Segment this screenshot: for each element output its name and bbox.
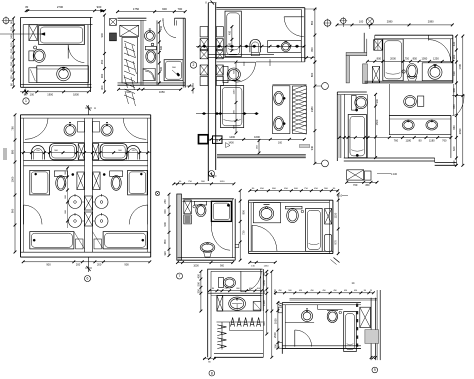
svg-text:300: 300 [228, 42, 231, 47]
left annex wall unit E [346, 33, 367, 84]
svg-text:150: 150 [9, 55, 13, 60]
door arc left unit F [25, 118, 48, 139]
dimension bottom unit E [345, 181, 378, 187]
svg-text:7: 7 [179, 274, 181, 278]
section symbol bottom unit F [85, 257, 92, 272]
svg-text:1500: 1500 [375, 119, 379, 125]
dimension line bottom unit B [117, 88, 182, 94]
hatched duct unit J [360, 307, 371, 327]
door arc unit E [429, 35, 451, 62]
svg-text:600: 600 [160, 66, 163, 71]
svg-text:1000: 1000 [193, 265, 199, 268]
wall bottom unit H [249, 251, 333, 253]
svg-text:200: 200 [273, 344, 277, 349]
svg-text:2090: 2090 [458, 128, 462, 134]
service box 2 unit D [213, 136, 223, 144]
svg-text:660: 660 [452, 125, 456, 130]
left dimension line unit F [10, 113, 16, 253]
svg-text:160: 160 [278, 142, 283, 145]
vertical dimension inside unit D [233, 61, 237, 135]
bathtub lower unit D [221, 86, 244, 128]
partition stub unit D [244, 59, 270, 66]
svg-text:6: 6 [87, 277, 89, 281]
svg-text:320: 320 [163, 251, 167, 256]
shelf rect right unit F [93, 122, 100, 133]
svg-text:730: 730 [242, 230, 246, 235]
door arc unit B [163, 18, 176, 37]
hatch boxes left party wall unit D [200, 65, 223, 86]
wall top unit H [249, 200, 333, 202]
dimension bottom-left unit I [203, 357, 216, 363]
svg-text:2900: 2900 [273, 332, 277, 338]
svg-text:800: 800 [242, 210, 246, 215]
vanity counter unit A [37, 66, 89, 83]
svg-text:1400: 1400 [229, 135, 235, 139]
svg-text:2080: 2080 [387, 19, 393, 23]
leader flag unit D [226, 143, 231, 148]
small wall stub right of unit D [299, 145, 309, 148]
basin oval unit I [229, 297, 246, 310]
hatched cabinet bottom unit E [347, 170, 371, 180]
far right dimension unit I [270, 270, 277, 359]
door arc unit D [236, 62, 256, 82]
closet hangers top row unit I [231, 317, 261, 326]
wall left unit F [21, 115, 24, 257]
svg-text:1650: 1650 [159, 90, 165, 94]
pedestal basin unit E [402, 64, 418, 82]
svg-text:450: 450 [196, 273, 200, 278]
partition mid unit E [365, 81, 453, 83]
sheet label circle 1 [23, 98, 29, 104]
water inlet dot unit B [151, 43, 154, 46]
hatched duct unit A [29, 25, 38, 41]
datum circle E2 [366, 18, 373, 29]
svg-text:1300: 1300 [262, 300, 266, 306]
wall right unit I [261, 269, 264, 357]
cabinet below duct unit G [184, 215, 192, 224]
towel hatch strip unit D [273, 85, 307, 134]
washer circle right upper unit F [93, 194, 109, 209]
left dimension line unit I [196, 270, 202, 313]
svg-text:900: 900 [124, 263, 129, 267]
svg-text:700: 700 [177, 7, 182, 11]
svg-text:600: 600 [452, 104, 456, 109]
corner note bottom-left unit E [337, 189, 348, 198]
arch basin unit C [250, 39, 261, 55]
hatched duct unit H [325, 209, 332, 225]
svg-text:1100: 1100 [233, 89, 235, 94]
svg-text:B: B [216, 138, 218, 142]
washer circle right lower unit F [93, 213, 109, 228]
right dimension line unit H [334, 193, 340, 255]
corridor wall line above unit J [290, 298, 378, 300]
hatch boxes right of party wall [216, 27, 223, 59]
basin circle unit C [281, 41, 290, 51]
dimension line top unit H [248, 189, 339, 192]
svg-text:1180: 1180 [429, 138, 435, 142]
svg-text:800: 800 [310, 72, 314, 77]
wall top unit J [282, 303, 361, 305]
sheet label circle 7 [177, 273, 183, 279]
counter dim labels unit F [36, 150, 136, 152]
svg-text:1600: 1600 [254, 135, 260, 139]
toilet WC left unit F [54, 171, 67, 191]
sheet label circle 4 [209, 171, 215, 177]
wall left unit G thick [177, 194, 182, 260]
bottom wall end ticks unit J [370, 356, 377, 359]
dimension line top unit E [336, 19, 454, 26]
hatch boxes centre lower unit F [85, 196, 93, 226]
bidet arch right unit F [127, 146, 140, 160]
toilet WC right unit F [110, 171, 123, 191]
inlet dot lower-left unit E [355, 109, 357, 111]
vanity counter unit D [273, 86, 290, 134]
dimension label 270 above unit A [25, 5, 101, 9]
basin circle unit J [301, 309, 312, 322]
pedestal basin unit G [200, 243, 215, 258]
far right dimension unit E [458, 35, 464, 167]
bathtub unit C [225, 11, 241, 57]
door arc unit C [284, 17, 304, 37]
svg-text:600: 600 [160, 45, 163, 50]
svg-text:900: 900 [262, 321, 266, 326]
sheet label circle 6 [85, 276, 91, 282]
hatch panel counter right unit F [93, 144, 99, 160]
wall extension ticks right of unit D [305, 56, 315, 59]
svg-text:1900: 1900 [47, 92, 53, 96]
bathtub unit J [344, 304, 359, 352]
svg-text:1380: 1380 [310, 106, 314, 112]
hatch box left of party wall unit F [77, 172, 84, 190]
dimension line top of unit A [25, 9, 106, 12]
vanity counter front right unit F [93, 141, 148, 143]
left dimension line unit A [9, 17, 15, 89]
shower square unit B [164, 60, 183, 81]
wall right lower unit E [451, 84, 454, 158]
inner vertical dimension unit C [228, 25, 233, 52]
svg-text:200: 200 [76, 263, 81, 267]
closet hanger rail unit I [217, 321, 263, 323]
svg-text:430: 430 [452, 41, 456, 46]
datum target symbol E1 [339, 17, 347, 27]
toilet WC unit I [219, 278, 236, 288]
wall right unit J [371, 290, 380, 360]
toilet WC centre unit E [404, 96, 424, 108]
wall top unit C [216, 8, 304, 10]
toilet WC upper unit E [352, 96, 368, 111]
wall right unit C [301, 8, 305, 62]
svg-text:850: 850 [163, 239, 167, 244]
door arc right unit F [123, 118, 146, 139]
washer circle left lower unit F [69, 213, 85, 228]
svg-text:2: 2 [193, 63, 195, 67]
partition line unit J [285, 322, 314, 324]
svg-text:9: 9 [374, 368, 376, 372]
svg-text:380: 380 [452, 87, 456, 92]
svg-text:300: 300 [100, 85, 104, 90]
sheet label circle 2 [190, 62, 196, 68]
svg-text:1180: 1180 [406, 138, 412, 142]
svg-text:900: 900 [46, 263, 51, 267]
left dimension line unit G [163, 193, 171, 257]
wall right unit E [451, 35, 453, 83]
svg-text:160: 160 [9, 68, 13, 73]
partition wall unit B [141, 20, 143, 85]
bathtub lower unit E [348, 115, 366, 158]
dimension right of unit C [305, 8, 317, 64]
door arc unit I [241, 272, 261, 292]
svg-text:1450: 1450 [264, 265, 270, 267]
corner shower tray unit B [143, 69, 155, 81]
svg-text:150: 150 [9, 75, 13, 80]
svg-text:450: 450 [365, 183, 370, 187]
dimension line bottom unit A [22, 90, 90, 96]
wall left unit J [282, 303, 285, 354]
wall break arrow unit J [278, 302, 282, 306]
svg-text:1150: 1150 [334, 212, 338, 218]
svg-text:150: 150 [9, 48, 13, 53]
shelf rect left unit F [78, 122, 85, 133]
shower square unit G [211, 201, 231, 221]
basin oval lower unit D [274, 117, 286, 131]
svg-text:760: 760 [10, 126, 14, 131]
partition upper lower-room unit E [337, 92, 367, 94]
dimension bottom unit G [176, 261, 234, 267]
datum target symbol C [323, 19, 332, 28]
bathtub unit E [383, 39, 403, 81]
wall band mid unit F [24, 161, 148, 166]
svg-text:200: 200 [262, 289, 266, 294]
svg-text:1050: 1050 [273, 318, 277, 324]
shower square right unit F [128, 170, 148, 195]
datum target symbol A1 [2, 16, 13, 24]
wall right unit F [148, 115, 151, 257]
right dimension line unit G [239, 189, 246, 262]
bathtub right unit F [103, 232, 147, 249]
partition WC nook unit D [216, 79, 240, 81]
svg-text:750: 750 [405, 56, 410, 60]
svg-text:250: 250 [163, 199, 167, 204]
basin circle unit B [145, 29, 156, 41]
washer box unit A [29, 68, 37, 83]
hatch panel counter left unit F [78, 144, 84, 160]
svg-text:200: 200 [97, 263, 102, 267]
inner dim vertical lower unit E [374, 93, 379, 159]
svg-text:700: 700 [353, 183, 358, 187]
svg-text:160: 160 [9, 42, 13, 47]
basin rounded right unit F [100, 144, 127, 160]
svg-text:760: 760 [394, 138, 399, 142]
svg-text:350: 350 [196, 289, 200, 294]
hatch box lower unit E upper room [372, 67, 379, 83]
svg-text:1: 1 [25, 99, 27, 103]
toilet WC unit H [285, 206, 303, 222]
hatch boxes left of party wall [200, 27, 208, 59]
svg-text:390: 390 [100, 73, 104, 78]
basin circle left unit F [64, 123, 76, 137]
door arc unit J [295, 330, 312, 347]
closet hanger left rail unit I [217, 322, 226, 350]
wall bottom unit A [21, 85, 92, 88]
basin circle unit A [57, 67, 71, 81]
svg-text:900: 900 [220, 265, 225, 268]
black service box left unit D [199, 135, 212, 144]
toilet WC unit J [327, 311, 342, 323]
leader dimension with arrows unit C [196, 45, 305, 48]
wall right unit G [233, 199, 236, 260]
wall top unit I [208, 269, 263, 271]
svg-text:180: 180 [9, 61, 13, 66]
vanity front line unit J [318, 305, 343, 310]
shower square left unit F [30, 170, 50, 195]
svg-text:150: 150 [163, 209, 167, 214]
wall top unit B [118, 18, 147, 20]
grey pilaster unit J [365, 330, 379, 344]
wall bottom unit I [214, 354, 263, 358]
svg-text:1050: 1050 [262, 279, 266, 285]
door arc lower-right unit F [129, 205, 148, 224]
wall pilaster black left unit B [110, 19, 117, 26]
svg-text:1750: 1750 [133, 7, 140, 11]
closet walls lower-left unit E [344, 94, 367, 158]
svg-text:450: 450 [100, 59, 104, 64]
svg-text:A: A [94, 106, 96, 110]
basin circle right unit F [101, 123, 113, 137]
partition mid unit I [208, 293, 263, 295]
wall top unit F [21, 115, 151, 118]
dimension through counters unit F [21, 151, 151, 154]
shower head dot unit B [172, 67, 180, 76]
svg-text:850: 850 [413, 56, 418, 60]
inner dimension line unit B [158, 21, 163, 85]
wall left unit H [249, 200, 252, 253]
mid horizontal dimension unit D [196, 112, 259, 115]
leader arrow to tub unit A [0, 33, 45, 36]
svg-text:620: 620 [452, 146, 456, 151]
washer circle left upper unit F [69, 194, 85, 209]
wall bottom unit B [118, 83, 186, 85]
svg-text:970: 970 [334, 240, 338, 245]
datum circle lower right of unit D [315, 160, 329, 167]
cabinet lower right unit H [325, 235, 332, 252]
inner dim line lower-left unit E [338, 136, 390, 139]
wall between C and D [209, 54, 305, 62]
svg-text:220: 220 [452, 160, 456, 165]
svg-text:900: 900 [162, 7, 167, 11]
section slash near unit J wall [331, 258, 340, 265]
label H above unit J [352, 281, 355, 285]
bathtub left unit F [30, 232, 74, 249]
wall bottom unit G [178, 258, 236, 261]
wall bottom unit E [344, 158, 457, 165]
closet interior lines unit I [230, 322, 264, 331]
dimension line mid unit I [208, 288, 263, 292]
dimension line top of unit B [116, 10, 186, 13]
hatch panel unit I [217, 295, 223, 311]
toilet WC unit G [193, 201, 207, 216]
inner dimension left room unit F [65, 167, 69, 228]
basin oval upper unit D [274, 91, 286, 105]
door arc lower-left unit F [24, 205, 43, 224]
svg-text:800: 800 [310, 47, 314, 52]
svg-text:4: 4 [211, 172, 213, 176]
leader note unit E [377, 173, 398, 176]
svg-text:1400: 1400 [228, 142, 234, 145]
wall right unit H [329, 200, 333, 253]
svg-text:2000: 2000 [390, 56, 396, 60]
closet with hangers unit B [122, 38, 138, 107]
vanity counter lower unit E [389, 116, 451, 135]
wall top unit G [183, 199, 234, 202]
svg-text:150: 150 [9, 26, 13, 31]
basin oval right lower unit E [426, 120, 438, 130]
vertical dimension right of unit D [310, 61, 316, 165]
dimension labels above unit B [133, 7, 183, 11]
bathtub unit A [39, 25, 85, 44]
svg-text:450: 450 [228, 30, 231, 35]
wall tick boxes left unit J [279, 307, 283, 348]
right dimension line unit I [262, 270, 268, 336]
dimension labels above unit G [179, 181, 225, 183]
door arc unit H [252, 225, 277, 251]
wall bottom unit J [282, 346, 361, 349]
svg-text:900: 900 [126, 90, 131, 94]
wall right unit A [84, 18, 90, 93]
basin rounded left unit F [50, 144, 77, 160]
svg-text:1050: 1050 [220, 181, 226, 183]
corner shelf unit I [253, 302, 261, 311]
dimension labels above unit H [252, 188, 336, 190]
wall bottom unit D [217, 154, 306, 157]
toilet WC unit B [145, 46, 156, 62]
hatched duct unit E [374, 40, 383, 51]
svg-text:900: 900 [100, 33, 104, 38]
svg-text:1250: 1250 [433, 56, 439, 60]
svg-text:1000: 1000 [10, 176, 14, 182]
dimension line lower unit E [388, 136, 452, 142]
datum arrow bottom-left unit A [20, 89, 31, 96]
dimension line top unit G [172, 182, 235, 185]
left wall grey sliver unit F [3, 148, 7, 160]
basin oval unit H [259, 205, 273, 221]
level mark right of unit F [155, 191, 159, 195]
toilet WC unit D [223, 66, 240, 82]
section cut mark bottom party wall [208, 173, 217, 178]
wall left unit I [208, 269, 211, 358]
inlet dots unit F [72, 173, 106, 175]
svg-text:100: 100 [30, 92, 35, 96]
svg-text:900: 900 [10, 208, 14, 213]
svg-text:800: 800 [377, 56, 382, 60]
svg-text:2080: 2080 [428, 19, 434, 23]
wall top-right stub unit B [175, 18, 186, 25]
hatched shelf unit B [120, 25, 139, 36]
water inlet dot unit A [34, 46, 37, 49]
datum circle upper right of unit D [315, 83, 329, 90]
svg-text:630: 630 [452, 71, 456, 76]
partition right lower unit E [389, 84, 451, 116]
toilet WC unit A [29, 49, 45, 62]
sub dim labels unit D [228, 142, 282, 145]
corner dim mark unit B bottom right [187, 83, 195, 94]
section cut mark top of party wall [205, 1, 216, 5]
svg-text:1800: 1800 [73, 92, 79, 96]
door swing dim unit D [257, 139, 261, 154]
door stub unit G [235, 244, 239, 247]
vanity counter unit C [268, 41, 302, 53]
door arc unit A [68, 45, 84, 63]
door arc lower right unit E [452, 96, 464, 116]
